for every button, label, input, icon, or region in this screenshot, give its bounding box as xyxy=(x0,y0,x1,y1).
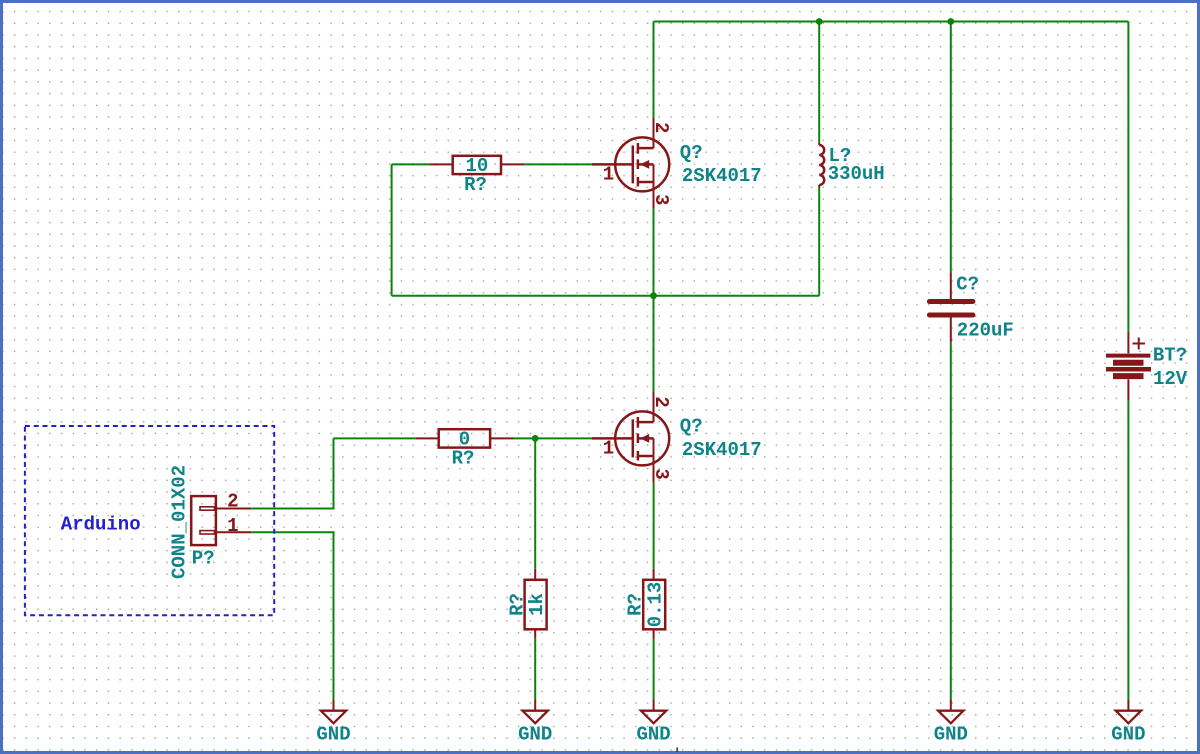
ground symbol 2 xyxy=(523,700,548,723)
resistor R1k xyxy=(525,569,547,639)
svg-text:1: 1 xyxy=(603,437,614,459)
svg-text:1: 1 xyxy=(227,515,238,537)
wire top rail xyxy=(654,21,1129,23)
svg-text:2SK4017: 2SK4017 xyxy=(682,439,762,461)
wire conn pin1 xyxy=(251,532,333,700)
svg-text:2SK4017: 2SK4017 xyxy=(682,165,762,187)
svg-text:R?: R? xyxy=(625,593,647,616)
svg-text:0.13: 0.13 xyxy=(645,582,667,628)
wire conn pin2 xyxy=(251,438,333,508)
svg-text:2: 2 xyxy=(227,491,238,513)
wire capacitor top xyxy=(950,22,952,273)
ground symbol 3 xyxy=(641,700,666,723)
connector P1 xyxy=(191,496,251,545)
wire feedback vertical xyxy=(391,164,393,295)
wire inductor top xyxy=(818,22,820,143)
junction rail-inductor xyxy=(816,18,823,25)
transistor Q2 xyxy=(592,392,669,483)
junction feedback node xyxy=(650,292,657,299)
wire battery top xyxy=(1127,22,1129,332)
ground symbol 4 xyxy=(938,700,963,723)
svg-text:3: 3 xyxy=(650,194,672,205)
capacitor C1 xyxy=(929,273,973,343)
svg-text:P?: P? xyxy=(192,547,215,569)
ground symbol 5 xyxy=(1116,700,1141,723)
svg-text:1: 1 xyxy=(603,163,614,185)
wire inductor bottom xyxy=(818,188,820,296)
wire R0 to gate Q2 xyxy=(514,437,593,439)
svg-text:330uH: 330uH xyxy=(828,163,885,185)
svg-text:2: 2 xyxy=(650,122,672,133)
svg-text:2: 2 xyxy=(650,396,672,407)
wire R10 left xyxy=(392,163,430,165)
wire Q2 source down xyxy=(653,483,655,569)
resistor R10 xyxy=(429,156,524,174)
svg-text:GND: GND xyxy=(1111,724,1145,746)
wire Q1 source down xyxy=(653,209,655,296)
svg-text:Q?: Q? xyxy=(680,416,703,438)
wire node to R1k xyxy=(534,438,536,568)
wire R013 to GND xyxy=(653,638,655,700)
wire R10 to gate Q1 xyxy=(524,163,592,165)
wire feedback horizontal xyxy=(392,295,820,297)
svg-text:GND: GND xyxy=(518,724,552,746)
wire battery bottom xyxy=(1127,401,1129,700)
svg-text:3: 3 xyxy=(650,468,672,479)
junction rail-capacitor xyxy=(947,18,954,25)
wire R0 left xyxy=(334,437,416,439)
svg-text:R?: R? xyxy=(452,448,475,470)
inductor L1 xyxy=(819,143,824,188)
svg-text:R?: R? xyxy=(507,593,529,616)
resistor R013 xyxy=(643,569,665,639)
Arduino dashed box xyxy=(25,426,274,615)
svg-text:GND: GND xyxy=(636,724,670,746)
svg-text:Arduino: Arduino xyxy=(61,514,141,536)
wire drain Q1 to rail xyxy=(653,22,655,119)
junction gate node R1k xyxy=(532,435,539,442)
svg-text:BT?: BT? xyxy=(1153,345,1187,367)
svg-text:1k: 1k xyxy=(526,593,548,616)
battery BT1 xyxy=(1106,332,1151,401)
wire Q2 drain up xyxy=(653,296,655,392)
sheet marker tick bottom edge xyxy=(676,748,678,753)
transistor Q1 xyxy=(592,118,669,209)
ground symbol 1 xyxy=(321,700,346,723)
svg-text:220uF: 220uF xyxy=(957,320,1014,342)
svg-text:CONN_01X02: CONN_01X02 xyxy=(168,465,190,579)
svg-text:12V: 12V xyxy=(1153,368,1188,390)
wire R1k to GND xyxy=(534,638,536,700)
svg-text:GND: GND xyxy=(316,724,350,746)
svg-text:C?: C? xyxy=(956,274,979,296)
svg-text:R?: R? xyxy=(464,174,487,196)
svg-text:GND: GND xyxy=(934,724,968,746)
resistor R0 xyxy=(415,429,513,447)
svg-text:Q?: Q? xyxy=(680,142,703,164)
wire capacitor bottom xyxy=(950,342,952,700)
